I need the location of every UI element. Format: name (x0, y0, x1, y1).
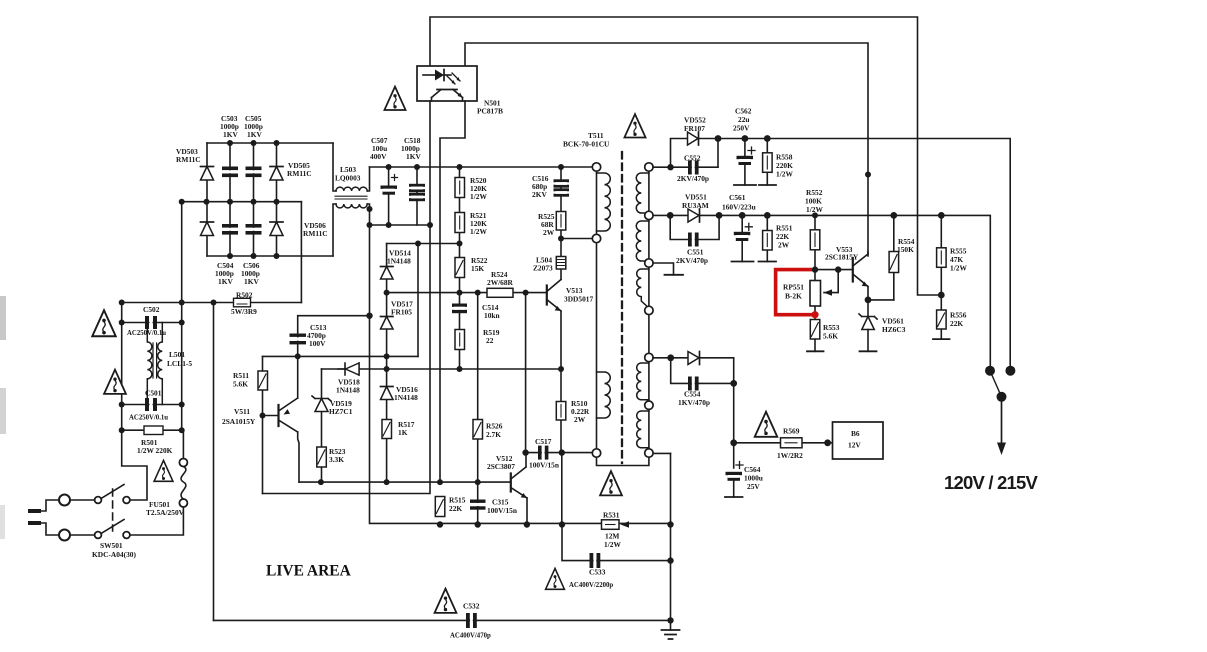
svg-text:AC400V/2200p: AC400V/2200p (569, 582, 613, 589)
R552/RP551/R553 column (814, 215, 816, 351)
AC plug prong 1 (28, 509, 41, 513)
diode VD504 (bottom row left) (201, 222, 214, 236)
svg-text:1N4148: 1N4148 (387, 257, 411, 266)
capacitor C506 (246, 224, 262, 235)
bridge column 2 wire (229, 143, 231, 256)
svg-text:1KV: 1KV (244, 277, 259, 286)
transistor V511 (279, 356, 300, 482)
switch ball contacts 120/215 (985, 366, 1015, 402)
T511 feedback winding (597, 372, 611, 418)
T511 primary winding (597, 173, 611, 231)
snubber link to primary bottom (561, 238, 594, 240)
resistor R554 (889, 215, 899, 300)
svg-text:LCL1-5: LCL1-5 (167, 359, 192, 368)
svg-text:LQ0003: LQ0003 (335, 174, 361, 183)
svg-text:2KV/470p: 2KV/470p (676, 256, 708, 265)
svg-text:R569: R569 (783, 427, 800, 436)
mid-section junction dots (260, 172, 872, 624)
capacitor C502 (145, 316, 157, 329)
capacitor C514 (452, 304, 467, 314)
warning triangle (fuse) (154, 460, 173, 481)
wire W2 top loop (465, 43, 868, 256)
wire pole2 contact to fuse bottom (130, 507, 183, 535)
line A (V512 base line) (299, 481, 510, 483)
svg-text:2KV: 2KV (532, 190, 547, 199)
RP551 highlight red box (776, 270, 819, 319)
capacitor C507 (electrolytic) (381, 167, 398, 225)
transformer T511 primary rail (596, 167, 598, 453)
bridge mid rail (182, 201, 302, 203)
svg-text:150K: 150K (897, 245, 914, 254)
line 243 (R521 to VD514) (387, 243, 460, 245)
connector B6 box (833, 422, 884, 459)
transistor V512 (511, 453, 527, 525)
svg-text:PC817B: PC817B (477, 107, 503, 116)
svg-text:1/2W: 1/2W (604, 540, 621, 549)
R526 / C315 column (477, 293, 479, 525)
diode VD551 (688, 209, 700, 222)
capacitor C516 (554, 179, 570, 196)
svg-text:RM11C: RM11C (176, 155, 201, 164)
capacitor C552 (688, 161, 699, 175)
R520 column wire (459, 167, 461, 369)
diode VD553 (688, 352, 700, 365)
svg-text:L501: L501 (169, 350, 185, 359)
warning triangle (C502) (92, 310, 115, 336)
svg-text:22K: 22K (950, 319, 963, 328)
svg-text:1/2W: 1/2W (950, 264, 967, 273)
AC plug prong 2 (28, 521, 41, 525)
choke L503 core (335, 196, 367, 199)
scan smudges left edge (0, 296, 6, 340)
svg-text:5.6K: 5.6K (233, 380, 248, 389)
svg-text:AC250V/0.1u: AC250V/0.1u (129, 415, 168, 422)
warning triangle (below T511) (600, 471, 622, 495)
svg-text:HZ6C3: HZ6C3 (882, 325, 906, 334)
wire L503 upper to HV rail (367, 167, 369, 191)
output line 138 to switch (699, 139, 1011, 369)
C501 line (122, 404, 182, 406)
switch SW501 pole2 terminal (95, 532, 102, 539)
capacitor C532 (466, 613, 477, 628)
svg-text:1K: 1K (398, 428, 408, 437)
transformer L501 core (153, 343, 157, 378)
warning triangle (C532) (435, 589, 457, 613)
optocoupler N501 phototransistor (432, 90, 463, 102)
main ground symbol (662, 620, 680, 639)
diode VD552 (688, 132, 699, 145)
diode VD506 (bottom row right) (270, 222, 283, 236)
bridge bottom rail (207, 255, 333, 257)
VD519 column wire (321, 369, 323, 482)
diode VD518 (338, 363, 359, 375)
svg-text:2SA1015Y: 2SA1015Y (222, 417, 256, 426)
warning triangle (T511) (624, 114, 645, 137)
svg-text:C517: C517 (535, 437, 552, 446)
svg-text:FR105: FR105 (391, 308, 412, 317)
opto emitter wire down to R515 (440, 101, 465, 482)
junction dots left section (119, 199, 217, 434)
rail 225 (C507/C518 return) (370, 224, 431, 226)
svg-text:2W: 2W (574, 415, 586, 424)
T511 secondary winding 2 (636, 221, 649, 261)
T511 secondary winding 4 (637, 363, 649, 400)
svg-text:2W/68R: 2W/68R (487, 278, 514, 287)
switch SW501 pole1 blade (101, 485, 124, 499)
resistor R522 (455, 258, 465, 278)
svg-text:T2.5A/250V: T2.5A/250V (146, 508, 185, 517)
capacitor C564 (electrolytic) (725, 462, 743, 498)
resistor R556 (933, 310, 950, 339)
svg-text:2W: 2W (543, 228, 555, 237)
svg-text:1KV: 1KV (406, 152, 421, 161)
svg-text:1/2W: 1/2W (806, 205, 823, 214)
capacitor C561 (electrolytic) (732, 215, 754, 261)
svg-text:RU3AM: RU3AM (682, 201, 709, 210)
resistor R517 (382, 420, 392, 439)
wire mid-rail right end down to R502 line (300, 202, 302, 303)
resistor R521 (455, 213, 465, 233)
svg-text:250V: 250V (733, 124, 750, 133)
diode VD516 (381, 387, 394, 400)
C517 line (526, 452, 594, 454)
capacitor C504 (222, 224, 238, 235)
R555/R556 column (940, 215, 942, 339)
resistor R519 (455, 330, 465, 350)
resistor R531 inline (602, 520, 630, 530)
warning triangle (C533) (546, 568, 565, 589)
transistor V511 base wire (263, 415, 278, 417)
diode VD517 (381, 317, 394, 330)
bridge top rail (207, 142, 333, 144)
resistor R501 (144, 426, 163, 435)
capacitor C551 (688, 233, 699, 247)
C513 top line (298, 316, 370, 357)
svg-text:BCK-70-01CU: BCK-70-01CU (563, 140, 610, 149)
warning triangle (R569) (755, 412, 778, 437)
svg-text:R502: R502 (236, 291, 253, 300)
left column vertical (C502 to R501) (121, 303, 123, 431)
switch SW501 pole2 contact (123, 532, 130, 539)
fuse FU501 top terminal (179, 459, 187, 467)
svg-text:1KV: 1KV (247, 130, 262, 139)
svg-text:B6: B6 (851, 429, 860, 438)
V553 base line (815, 269, 853, 271)
svg-text:3.3K: 3.3K (329, 455, 344, 464)
capacitor C513 (290, 334, 307, 345)
svg-text:12V: 12V (848, 441, 861, 450)
svg-text:B-2K: B-2K (785, 292, 802, 301)
svg-text:22: 22 (486, 336, 494, 345)
R501 line (122, 429, 182, 431)
C554 loop (671, 358, 734, 384)
optocoupler N501 LED (423, 70, 451, 81)
T511 secondary winding 3 (637, 269, 649, 308)
C551 loop (670, 215, 719, 239)
C502 line (122, 322, 182, 324)
resistor R511 (258, 371, 268, 390)
bridge column 1 wire (206, 143, 208, 256)
transformer pin3 ground (653, 263, 683, 275)
svg-text:LIVE AREA: LIVE AREA (266, 563, 352, 580)
capacitor C562 (electrolytic) (734, 139, 756, 186)
svg-text:1KV: 1KV (223, 130, 238, 139)
resistor R524 (487, 288, 513, 297)
V512 collector to V513 base vertical (525, 293, 527, 453)
secondary common down wire (670, 453, 672, 620)
choke L503 upper winding (336, 187, 367, 191)
secondary top stub + C552 run (653, 166, 718, 168)
T511 secondary winding 1 (636, 173, 649, 213)
resistor R525 (556, 212, 566, 231)
svg-text:SW501: SW501 (100, 541, 123, 550)
switch SW501 pole1 terminal (95, 497, 102, 504)
switch arrow down (997, 397, 1006, 455)
capacitor C315 (470, 500, 486, 510)
svg-text:400V: 400V (370, 152, 387, 161)
svg-text:3DD5017: 3DD5017 (564, 295, 593, 304)
svg-text:1/2W: 1/2W (776, 170, 793, 179)
warning triangle (C501) (104, 370, 126, 394)
bridge column 3 wire (253, 143, 255, 256)
optocoupler N501 box (417, 66, 477, 101)
svg-text:2.7K: 2.7K (486, 430, 501, 439)
fuse FU501 bottom terminal (179, 499, 187, 507)
svg-text:C532: C532 (463, 602, 480, 611)
resistor R515 (435, 497, 445, 517)
emitter node line to R554 (868, 299, 894, 301)
T511 bottom bracket link (597, 453, 649, 466)
svg-text:5.6K: 5.6K (823, 332, 838, 341)
R502 line (122, 302, 302, 304)
potentiometer RP551 (810, 270, 838, 306)
right column vertical (mid-rail to fuse) (181, 202, 183, 431)
HV rail (167) (370, 166, 595, 168)
resistor R523 (317, 447, 327, 467)
optocoupler N501 light arrows (447, 73, 460, 84)
resistor R551 (759, 215, 777, 261)
svg-text:1/2W: 1/2W (470, 192, 487, 201)
right section junction dots (667, 135, 945, 303)
wire pole1 contact to left column (122, 430, 147, 500)
svg-text:2W: 2W (778, 241, 790, 250)
svg-text:100V/15n: 100V/15n (529, 461, 559, 470)
svg-text:FR107: FR107 (684, 124, 705, 133)
T511 secondary winding 5 (637, 411, 649, 448)
svg-text:C561: C561 (729, 193, 746, 202)
inductor L504 (556, 257, 566, 270)
svg-text:KDC-A04(30): KDC-A04(30) (92, 550, 136, 559)
bridge junction dots (204, 140, 280, 259)
capacitor C503 (222, 167, 238, 178)
switch SW501 pole1 contact (123, 497, 130, 504)
svg-text:1W/2R2: 1W/2R2 (777, 451, 803, 460)
svg-text:AC400V/470p: AC400V/470p (450, 633, 491, 640)
svg-text:1/2W 220K: 1/2W 220K (137, 446, 173, 455)
wire W1 top loop (430, 17, 941, 295)
resistor R558 (759, 139, 776, 186)
C533 stub (562, 525, 671, 561)
svg-text:2KV/470p: 2KV/470p (677, 174, 709, 183)
plug pin circle 1 (59, 495, 70, 506)
R569 line to B6 (734, 442, 833, 444)
svg-text:100V: 100V (309, 339, 326, 348)
svg-text:C501: C501 (145, 389, 162, 398)
svg-text:C552: C552 (684, 154, 701, 163)
transistor V553 (853, 252, 868, 300)
svg-text:1KV: 1KV (218, 277, 233, 286)
svg-text:RM11C: RM11C (303, 229, 328, 238)
svg-text:1N4148: 1N4148 (336, 386, 360, 395)
fuse FU501 element (181, 467, 186, 500)
zener VD561 (859, 300, 877, 351)
svg-text:V511: V511 (234, 407, 250, 416)
svg-text:120V / 215V: 120V / 215V (944, 472, 1038, 493)
svg-text:2SC3807: 2SC3807 (487, 462, 515, 471)
transistor V513 (547, 269, 561, 370)
T511 core dashed (621, 152, 623, 463)
svg-text:RM11C: RM11C (287, 169, 312, 178)
svg-text:2SC1815Y: 2SC1815Y (825, 253, 859, 262)
R511 column (box left edge) (262, 356, 264, 493)
lower secondary output line (653, 358, 734, 468)
capacitor C533 (590, 553, 601, 568)
feedback line 369 (322, 368, 562, 370)
HV rail junction dots (367, 164, 565, 228)
primary common vertical and bottom rail (367, 204, 671, 523)
VD552 branch up (671, 139, 688, 168)
resistor R569 (781, 438, 803, 448)
capacitor C517 (538, 446, 548, 460)
warning triangle (opto) (384, 87, 405, 110)
capacitor C518 (409, 167, 425, 225)
plug pin circle 2 (59, 530, 70, 541)
C513 line (356) (263, 355, 419, 357)
diode VD505 (270, 167, 283, 181)
opto pin2 wire down to feedback line B (263, 101, 431, 494)
VD514 column wire (386, 244, 388, 483)
C552 loop right side (717, 139, 719, 168)
resistor R510 (556, 369, 566, 453)
bottom line (C532) (214, 619, 671, 621)
wire bottom rail to L503 lower winding (333, 204, 336, 256)
wire top rail to L503 upper winding (333, 143, 336, 191)
resistor R502 (234, 298, 251, 307)
wire plug to pin1 (41, 500, 59, 511)
resistor R553 (807, 320, 824, 352)
svg-text:160V/223u: 160V/223u (722, 203, 756, 212)
svg-text:1N4148: 1N4148 (394, 393, 418, 402)
resistor R520 (455, 178, 465, 198)
switch blade (990, 371, 1002, 397)
lower output junction dots (667, 354, 831, 446)
svg-text:22K: 22K (449, 504, 462, 513)
capacitor C501 (145, 398, 157, 411)
diode VD514 (381, 267, 394, 280)
secondary common out (649, 452, 671, 454)
capacitor C554 (688, 377, 699, 391)
svg-text:C533: C533 (589, 568, 606, 577)
svg-text:RP551: RP551 (783, 283, 804, 292)
svg-text:1/2W: 1/2W (470, 227, 487, 236)
transformer T511 secondary rail (648, 167, 650, 453)
resistor R526 (473, 420, 483, 440)
T511 pin circles (592, 163, 653, 457)
svg-text:C502: C502 (143, 305, 160, 314)
svg-text:R531: R531 (603, 511, 620, 520)
svg-text:15K: 15K (471, 264, 484, 273)
choke L503 lower winding (336, 204, 367, 208)
wire plug to pin2 (41, 523, 59, 535)
C516/R525/L504 column (560, 167, 562, 257)
svg-text:Z2073: Z2073 (533, 264, 553, 273)
base drive line 292 (387, 292, 547, 294)
wire pin1 to switch pole1 (70, 499, 95, 501)
wire fuse top to R501 line (182, 430, 184, 458)
switch SW501 pole2 blade (101, 520, 124, 534)
switch gang dashed link (112, 489, 114, 531)
R510 bottom to bottom rail (561, 453, 563, 525)
resistor R555 (937, 248, 947, 267)
wire pin2 to switch pole2 (70, 534, 95, 536)
transformer L501 winding 1 (147, 323, 152, 405)
svg-text:10kn: 10kn (484, 311, 500, 320)
svg-text:HZ7C1: HZ7C1 (329, 407, 353, 416)
resistor R552 (810, 230, 820, 250)
svg-text:100V/15n: 100V/15n (487, 506, 517, 515)
line 215 (VD551 output) (653, 215, 990, 368)
transformer L501 winding 2 (158, 323, 163, 405)
zener VD519 (312, 396, 331, 412)
bridge column 4 wire (276, 143, 278, 256)
capacitor C505 (246, 167, 262, 178)
svg-text:5W/3R9: 5W/3R9 (231, 307, 257, 316)
long left vertical to bottom rail (213, 303, 215, 621)
box right edge wire (417, 244, 419, 357)
diode VD503 (201, 167, 214, 181)
svg-text:1KV/470p: 1KV/470p (678, 398, 710, 407)
svg-text:25V: 25V (747, 482, 760, 491)
svg-text:AC250V/0.1u: AC250V/0.1u (127, 330, 166, 337)
